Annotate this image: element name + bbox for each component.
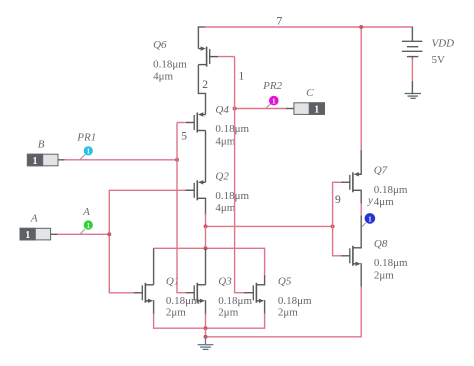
svg-text:4μm: 4μm — [215, 202, 235, 214]
svg-text:0.18μm: 0.18μm — [153, 59, 187, 71]
input switch C — [294, 103, 325, 116]
label B — [38, 138, 45, 150]
net label 5 — [181, 130, 187, 142]
svg-text:A: A — [30, 213, 38, 225]
wire net5 Q4 gate — [177, 122, 186, 124]
svg-text:4μm: 4μm — [153, 70, 173, 82]
svg-text:Q3: Q3 — [218, 275, 232, 287]
label Q5 — [278, 275, 312, 318]
wire Q1 source — [153, 301, 155, 328]
svg-text:4μm: 4μm — [215, 135, 235, 147]
transistor Q8 NMOS — [350, 246, 361, 266]
wire NMOS source rail — [154, 327, 265, 329]
svg-text:0.18μm: 0.18μm — [215, 190, 249, 202]
svg-text:y: y — [367, 194, 373, 206]
svg-text:0.18μm: 0.18μm — [374, 257, 408, 269]
battery VDD — [402, 41, 423, 56]
junction node9 right — [331, 224, 335, 228]
wire Q8 source to ground — [360, 264, 362, 337]
svg-text:2μm: 2μm — [374, 269, 394, 281]
wire node9 link down — [205, 226, 207, 248]
svg-text:0.18μm: 0.18μm — [215, 123, 249, 135]
wire Q8 drain — [360, 247, 362, 249]
net label 9 — [335, 194, 341, 206]
label probe A — [82, 206, 90, 218]
svg-text:1: 1 — [272, 97, 276, 105]
svg-text:0.18μm: 0.18μm — [166, 295, 200, 307]
probe PR2 — [266, 96, 279, 108]
wire net7 VDD rail — [198, 26, 412, 28]
svg-text:1: 1 — [368, 215, 372, 223]
wire to ground node — [205, 328, 207, 337]
label Q6 — [153, 39, 187, 82]
wire Q6 source to rail — [197, 27, 199, 49]
wire Q7 source to rail — [360, 27, 362, 174]
svg-text:4μm: 4μm — [374, 196, 394, 208]
svg-text:Q7: Q7 — [374, 165, 388, 177]
label Q7 — [374, 165, 408, 209]
transistor Q5 NMOS — [253, 283, 264, 303]
wire NMOS drain rail — [154, 247, 265, 249]
svg-text:Q5: Q5 — [278, 275, 292, 287]
transistor Q7 PMOS — [350, 172, 361, 192]
wire A net vertical — [108, 190, 110, 292]
svg-text:PR1: PR1 — [76, 131, 96, 143]
wire Q2 source to node9 — [205, 198, 207, 226]
svg-text:5V: 5V — [432, 54, 446, 66]
label VDD — [432, 38, 455, 67]
svg-text:A: A — [82, 206, 90, 218]
label Q4 — [215, 104, 249, 148]
net label 1 — [239, 71, 245, 83]
label Q2 — [215, 171, 249, 215]
svg-text:PR2: PR2 — [262, 80, 282, 92]
wire battery to ground — [411, 57, 413, 94]
svg-text:C: C — [306, 87, 314, 99]
svg-text:2μm: 2μm — [218, 307, 238, 319]
label C — [306, 87, 314, 99]
wire ground horizontal — [206, 336, 362, 338]
junction source rail — [204, 326, 208, 330]
wire net1 vertical — [234, 57, 236, 293]
wire A input — [51, 233, 110, 235]
svg-text:Q8: Q8 — [374, 238, 388, 250]
wire net1 Q6 gate — [218, 56, 235, 58]
wire node9 vertical right — [332, 182, 334, 256]
wire Q8 gate — [333, 255, 350, 257]
svg-text:2μm: 2μm — [278, 307, 298, 319]
wire net5 vertical B net — [176, 123, 178, 293]
input switch A — [20, 228, 51, 241]
svg-text:Q4: Q4 — [215, 104, 229, 116]
svg-text:1: 1 — [25, 230, 30, 241]
svg-text:Q6: Q6 — [153, 39, 167, 51]
probe Y — [362, 213, 376, 227]
transistor Q6 PMOS — [198, 46, 218, 66]
transistor Q1 NMOS — [142, 283, 153, 303]
wire Y node — [360, 190, 362, 248]
label probe Y — [367, 194, 373, 206]
svg-text:7: 7 — [277, 15, 283, 27]
svg-text:VDD: VDD — [432, 38, 455, 50]
wire node9 horizontal — [206, 225, 333, 227]
svg-text:5: 5 — [181, 130, 187, 142]
wire net5 to Q3 gate — [177, 292, 194, 294]
wire Q3 drain — [205, 248, 207, 284]
svg-text:1: 1 — [87, 148, 91, 156]
svg-text:1: 1 — [314, 104, 319, 115]
junction node1-C — [233, 107, 237, 111]
label Q1 — [166, 275, 200, 318]
wire B input to net5 — [58, 159, 177, 161]
wire net1 to Q5 gate — [235, 292, 253, 294]
wire Q5 drain — [264, 248, 266, 284]
probe PR1 — [80, 146, 93, 159]
wire Q7 gate — [333, 181, 350, 183]
wire A net to Q1 gate — [109, 292, 142, 294]
junction A-net — [107, 232, 111, 236]
label Q8 — [374, 238, 408, 281]
transistor Q2 PMOS — [186, 180, 206, 200]
svg-text:2μm: 2μm — [166, 307, 186, 319]
ground battery — [405, 94, 421, 99]
junction ground node — [204, 335, 208, 339]
svg-text:B: B — [38, 138, 45, 150]
svg-text:1: 1 — [33, 156, 38, 167]
junction node9 left — [204, 224, 208, 228]
junction drain rail — [204, 246, 208, 250]
wire node2 Q6 drain to Q4 drain — [198, 65, 205, 115]
ground main — [198, 337, 214, 350]
transistor Q4 PMOS — [186, 112, 206, 132]
label A input — [30, 213, 38, 225]
svg-text:0.18μm: 0.18μm — [278, 295, 312, 307]
net label 2 — [202, 79, 208, 91]
wire Q1 drain — [153, 248, 155, 284]
input switch B — [27, 154, 58, 167]
svg-text:0.18μm: 0.18μm — [374, 184, 408, 196]
svg-text:0.18μm: 0.18μm — [218, 295, 252, 307]
junction rail-Q7 — [359, 25, 363, 29]
svg-text:2: 2 — [202, 79, 208, 91]
wire Q4 to Q2 — [205, 131, 207, 183]
svg-text:1: 1 — [239, 71, 245, 83]
svg-text:1: 1 — [87, 222, 91, 230]
svg-text:Q2: Q2 — [215, 171, 229, 183]
svg-text:9: 9 — [335, 194, 341, 206]
label PR2 — [262, 80, 282, 92]
label PR1 — [76, 131, 96, 143]
wire A net Q2 gate — [109, 189, 194, 191]
transistor Q3 NMOS — [194, 283, 205, 303]
probe A — [80, 220, 93, 234]
net label 7 — [277, 15, 283, 27]
wire Q3 source — [205, 301, 207, 328]
wire Q5 source — [264, 301, 266, 328]
junction B-net5 — [175, 158, 179, 162]
wire net1 to C input — [235, 108, 295, 110]
label Q3 — [218, 275, 252, 318]
battery VDD stem top — [411, 27, 413, 41]
